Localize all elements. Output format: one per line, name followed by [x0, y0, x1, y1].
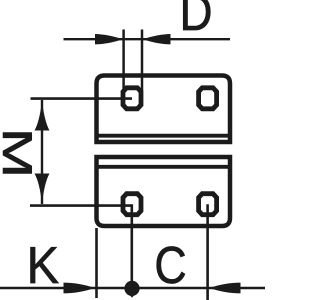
- arrowhead M up: [35, 100, 50, 131]
- svg-text:K: K: [27, 236, 60, 295]
- extension line D right: [141, 30, 144, 92]
- extension line lower-left hole center: [131, 204, 134, 295]
- svg-text:D: D: [180, 0, 213, 42]
- hole lower-right: [199, 194, 217, 215]
- dimension line M vertical: [41, 100, 43, 204]
- hole lower-left: [123, 194, 141, 215]
- extension line lower-right hole center: [206, 204, 209, 300]
- extension line bracket left edge: [95, 228, 98, 298]
- dot tail point: [129, 294, 136, 298]
- dimension line D horizontal: [64, 38, 231, 40]
- dot terminator at C left end: [124, 281, 139, 296]
- hole upper-right: [199, 88, 217, 109]
- arrowhead M down: [35, 174, 50, 205]
- svg-text:M: M: [0, 128, 40, 179]
- upper bracket inner fold line: [97, 134, 231, 138]
- arrowhead D right: [143, 34, 171, 44]
- lower bracket plate outline: [97, 157, 231, 226]
- extension line M bottom: [30, 204, 132, 207]
- svg-text:C: C: [154, 237, 186, 295]
- dimension line K C bottom: [0, 287, 265, 290]
- arrowhead C left: [210, 283, 241, 294]
- upper bracket plate outline: [97, 76, 231, 143]
- lower bracket inner fold line: [97, 165, 231, 169]
- hole upper-left: [123, 88, 141, 109]
- extension line M top: [31, 97, 133, 100]
- arrowhead K right: [64, 283, 95, 294]
- extension line D left: [122, 30, 125, 92]
- arrowhead D left: [95, 34, 123, 44]
